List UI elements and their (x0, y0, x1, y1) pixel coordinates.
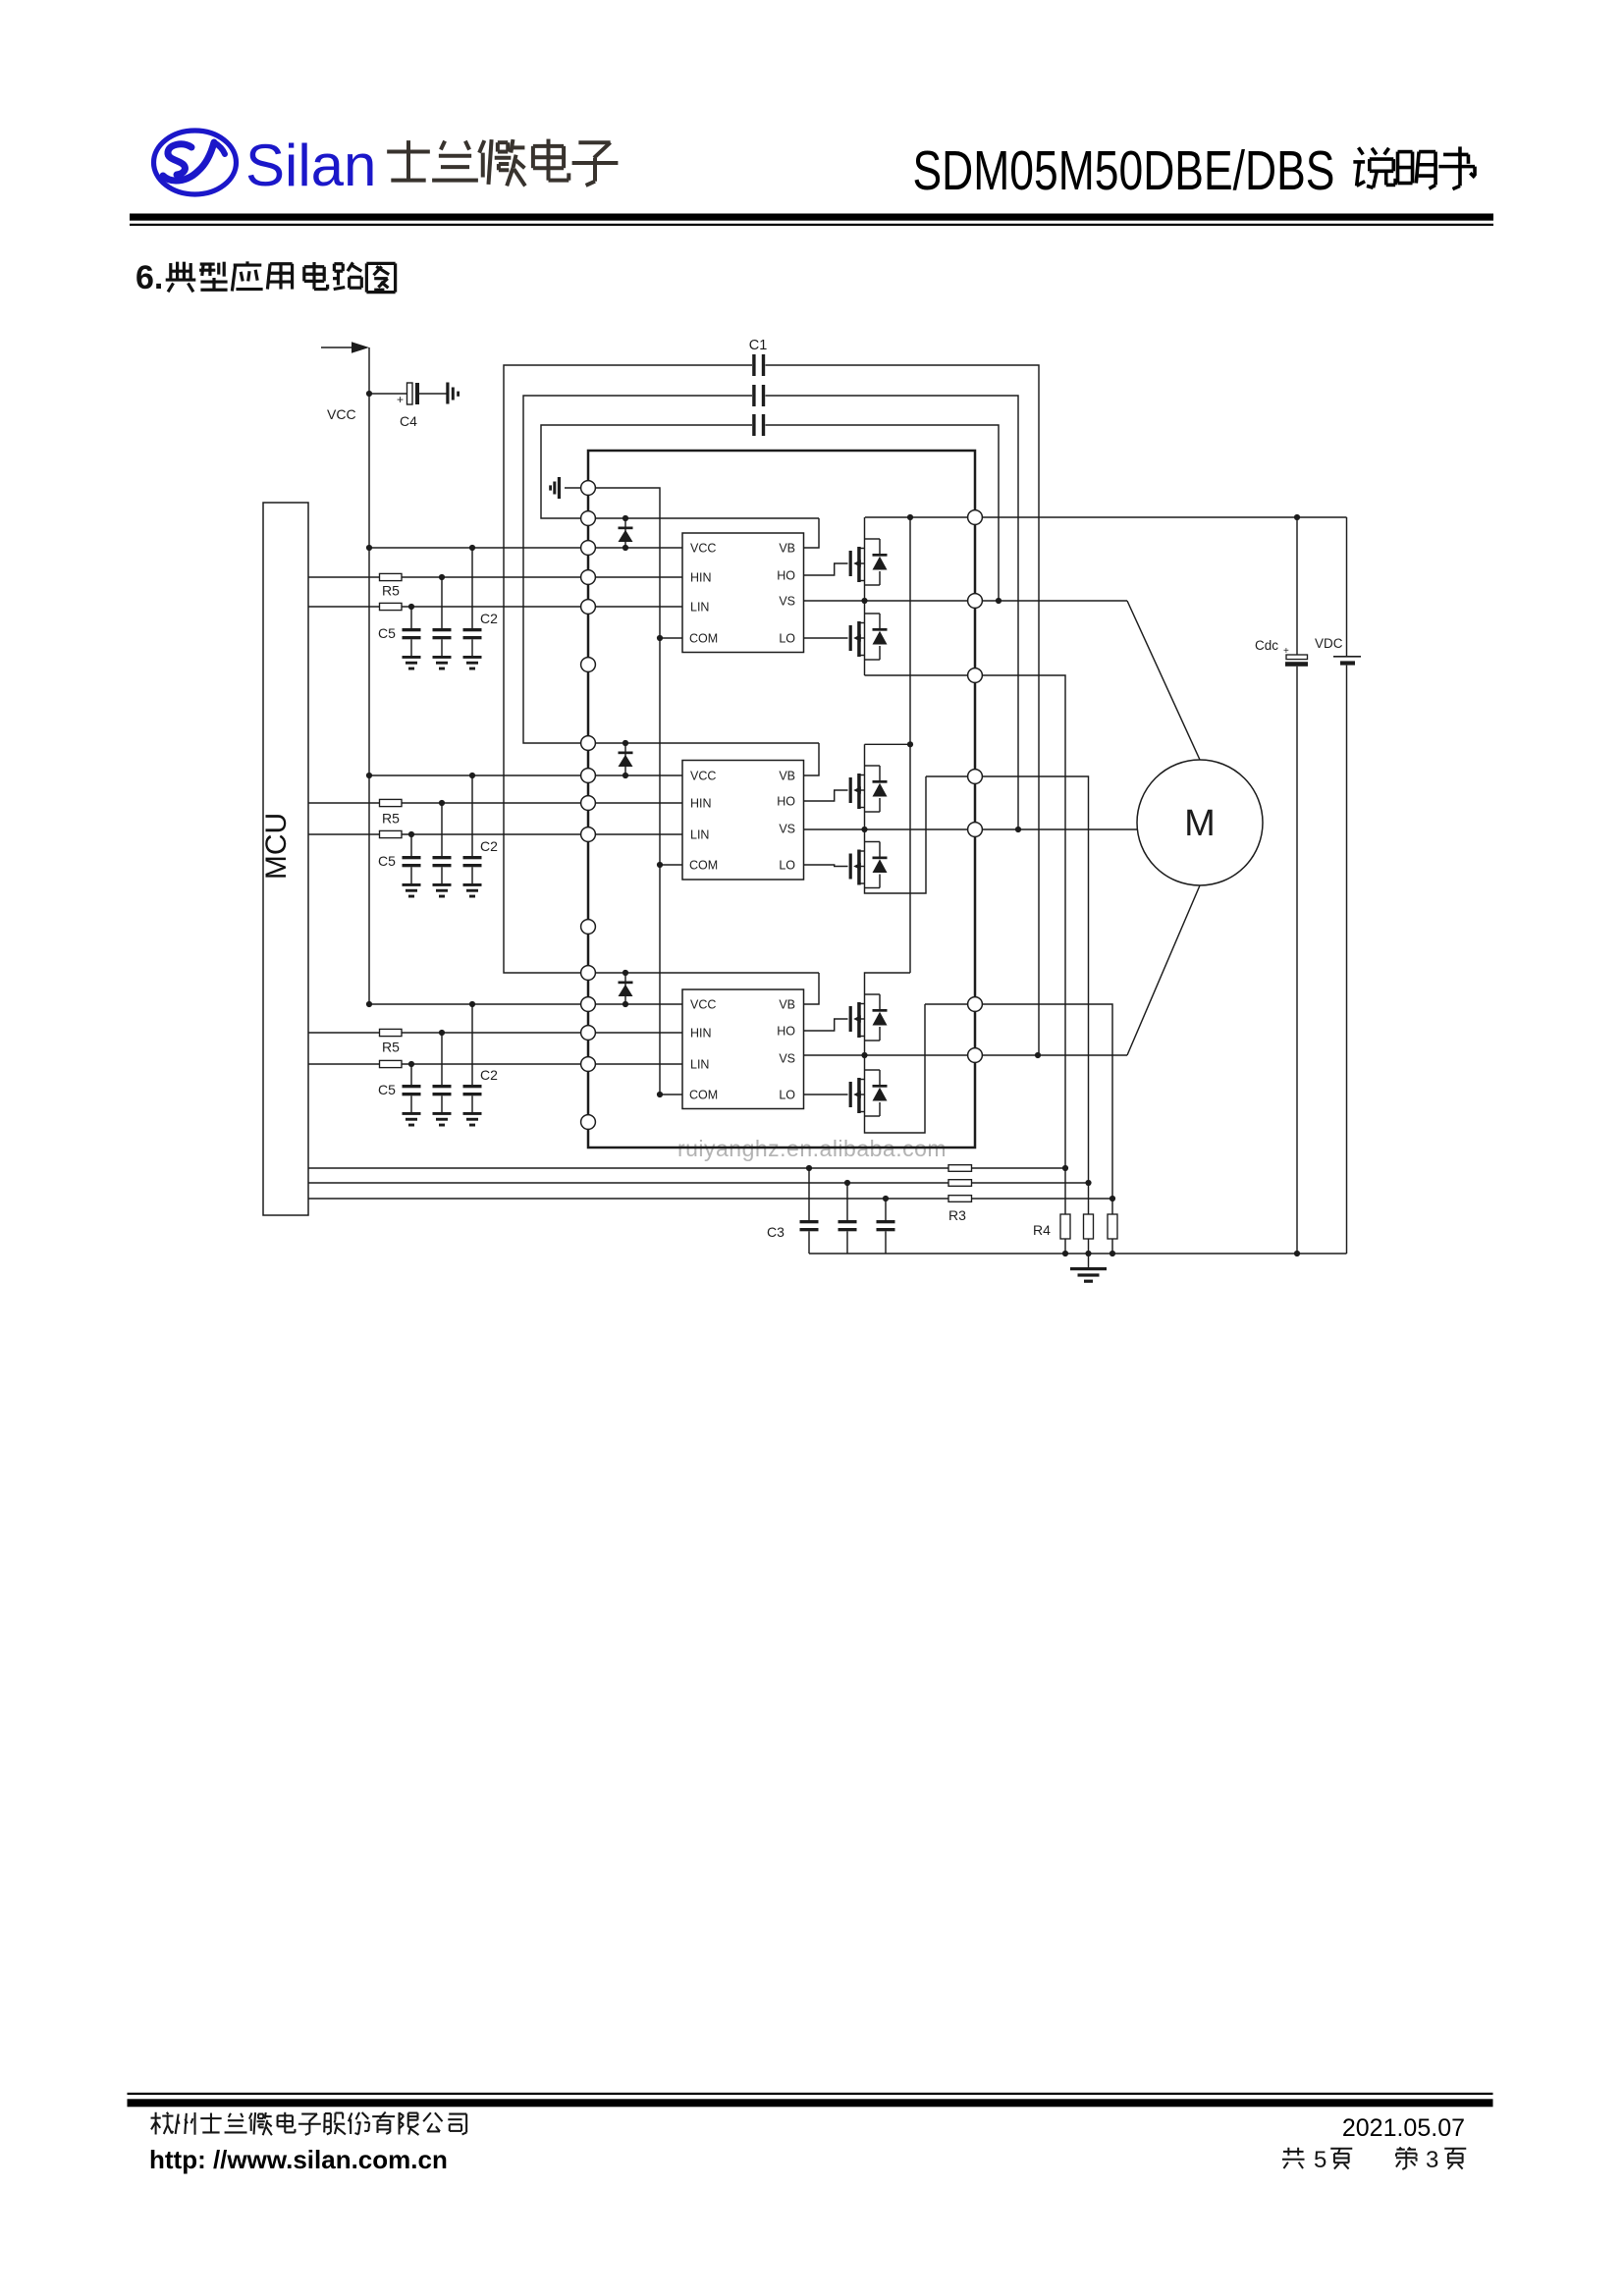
svg-text:VCC: VCC (327, 406, 356, 422)
svg-text:VS: VS (779, 595, 795, 609)
svg-text:VB: VB (779, 542, 795, 556)
svg-text:COM: COM (689, 1089, 718, 1102)
svg-text:LIN: LIN (690, 828, 709, 842)
svg-text:R5: R5 (382, 811, 400, 827)
svg-text:COM: COM (689, 859, 718, 873)
svg-text:HO: HO (777, 1025, 795, 1039)
svg-text:R3: R3 (948, 1207, 966, 1223)
svg-text:VB: VB (779, 770, 795, 783)
svg-text:SDM05M50DBE/DBS: SDM05M50DBE/DBS (913, 139, 1335, 202)
svg-text:VS: VS (779, 823, 795, 836)
svg-text:R5: R5 (382, 1040, 400, 1055)
svg-text:C2: C2 (480, 838, 498, 854)
svg-text:LIN: LIN (690, 601, 709, 614)
svg-text:+: + (397, 393, 404, 406)
svg-text:Silan: Silan (245, 133, 376, 198)
svg-text:C1: C1 (749, 338, 768, 353)
svg-text:COM: COM (689, 632, 718, 646)
svg-text:C2: C2 (480, 611, 498, 626)
svg-text:R5: R5 (382, 583, 400, 599)
svg-text:C4: C4 (400, 413, 417, 429)
svg-text:LO: LO (779, 1089, 795, 1102)
svg-text:VDC: VDC (1315, 636, 1343, 651)
svg-text:HO: HO (777, 795, 795, 809)
svg-text:HIN: HIN (690, 571, 712, 585)
svg-text:HIN: HIN (690, 1027, 712, 1041)
svg-text:Cdc: Cdc (1255, 638, 1278, 653)
svg-text:2021.05.07: 2021.05.07 (1342, 2114, 1465, 2142)
svg-text:+: + (1283, 646, 1289, 657)
svg-text:C3: C3 (767, 1224, 785, 1240)
svg-text:MCU: MCU (260, 813, 293, 880)
svg-text:C5: C5 (378, 853, 396, 869)
svg-text:HIN: HIN (690, 797, 712, 811)
svg-text:HO: HO (777, 569, 795, 583)
svg-text:VCC: VCC (690, 998, 716, 1012)
svg-text:VCC: VCC (690, 542, 716, 556)
svg-text:VS: VS (779, 1052, 795, 1066)
svg-text:LO: LO (779, 632, 795, 646)
svg-text:M: M (1184, 803, 1216, 844)
svg-text:C5: C5 (378, 1082, 396, 1097)
svg-text:VCC: VCC (690, 770, 716, 783)
svg-text:6.: 6. (135, 259, 163, 296)
svg-text:LO: LO (779, 859, 795, 873)
svg-text:R4: R4 (1033, 1222, 1051, 1238)
svg-text:5: 5 (1314, 2147, 1326, 2173)
svg-text:C5: C5 (378, 625, 396, 641)
svg-text:http: //www.silan.com.cn: http: //www.silan.com.cn (149, 2145, 448, 2174)
svg-text:C2: C2 (480, 1067, 498, 1083)
svg-text:LIN: LIN (690, 1058, 709, 1072)
svg-text:VB: VB (779, 998, 795, 1012)
svg-text:3: 3 (1426, 2147, 1438, 2173)
